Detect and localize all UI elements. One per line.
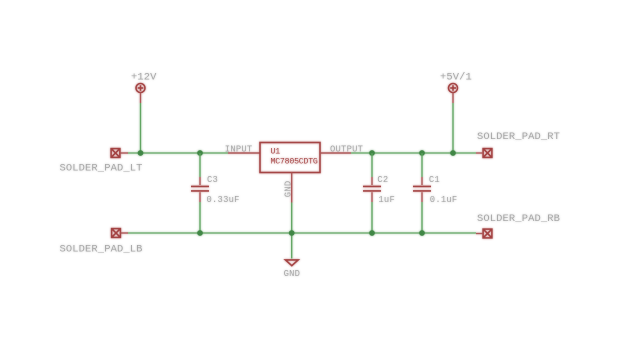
soft blurred layer — [60, 72, 561, 279]
sharp layer — [60, 72, 561, 279]
